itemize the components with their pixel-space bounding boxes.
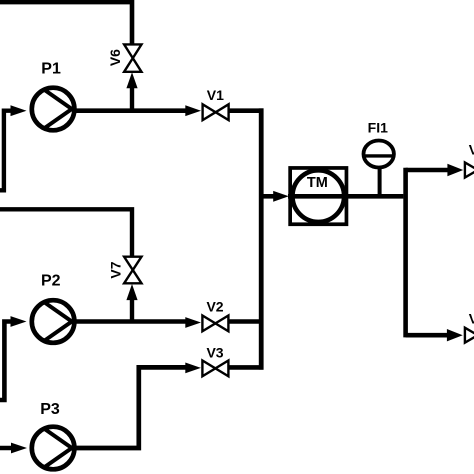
wire P3 discharge riser up to V3 line (74, 367, 189, 448)
pump P2 (32, 300, 75, 343)
wire P2 discharge pipe to V2 (74, 319, 188, 324)
svg-text:TM: TM (307, 175, 328, 191)
wire pipe through TM to right manifold (288, 194, 403, 199)
wire V4 branch (406, 168, 450, 173)
svg-text:P3: P3 (40, 401, 60, 418)
wire second recirculation header from left edge to V7 column (0, 209, 132, 257)
arrowhead into valve V1 (185, 105, 201, 116)
wire V7 stem up from P2 discharge pipe (130, 299, 134, 323)
wire P1 suction line from left edge at y=190 up to pump inlet (0, 111, 13, 191)
arrowhead into valve V5 (447, 329, 463, 341)
wire FI1 stem (378, 166, 382, 196)
arrowhead into valve V2 (185, 317, 201, 328)
valve V6 (vertical bowtie) (124, 44, 141, 71)
wire V1 outlet to left manifold (229, 108, 264, 113)
valve V7 (vertical bowtie) (124, 257, 141, 284)
wire V2 outlet to left manifold (228, 319, 263, 324)
arrowhead into pump P2 (11, 316, 27, 327)
valve V5 (cut at right edge) (465, 328, 474, 343)
arrowhead into pump P3 (11, 443, 27, 454)
valve V1 (horizontal bowtie) (203, 104, 229, 120)
arrowhead into valve V4 (447, 164, 463, 176)
mixer TM circle (293, 170, 345, 222)
svg-text:P2: P2 (41, 272, 61, 289)
pump P3 (32, 427, 75, 470)
wire P1 discharge pipe to V1 (74, 108, 188, 113)
wire V6 branch stem up from P1 discharge pipe (130, 88, 134, 113)
svg-text:V1: V1 (207, 87, 224, 103)
svg-text:V2: V2 (206, 298, 223, 314)
arrowhead into pump P1 (11, 105, 27, 116)
wire top recirculation header from left edge to V6 column (0, 2, 132, 45)
wire right manifold vertical (403, 168, 408, 338)
svg-text:V7: V7 (108, 261, 124, 278)
svg-text:FI1: FI1 (368, 120, 388, 136)
valve V3 (horizontal bowtie) (202, 361, 228, 377)
pump P1 (32, 88, 75, 131)
mixer TM square (290, 168, 346, 224)
wire P2 suction line from left edge at y=400 up to pump inlet (0, 322, 13, 401)
wire V3 outlet to left manifold (228, 365, 263, 370)
wire branch from manifold to mixer TM (259, 194, 275, 199)
flow indicator FI1 (363, 141, 395, 168)
wire P3 suction from left edge (0, 446, 13, 450)
wire left manifold vertical (V1/V2/V3 collector) (259, 108, 264, 369)
svg-text:V6: V6 (107, 49, 123, 66)
svg-text:V4: V4 (469, 142, 474, 158)
valve V4 (cut at right edge) (465, 163, 474, 178)
svg-text:V5: V5 (469, 311, 474, 327)
svg-text:P1: P1 (41, 60, 61, 77)
arrowhead into valve V3 (185, 363, 201, 374)
arrowhead into valve V6 (126, 72, 137, 88)
valve V2 (horizontal bowtie) (202, 316, 228, 332)
svg-text:V3: V3 (206, 344, 223, 360)
arrowhead into valve V7 (126, 284, 137, 300)
wire V5 branch (406, 333, 449, 338)
arrowhead into mixer TM (273, 191, 289, 202)
